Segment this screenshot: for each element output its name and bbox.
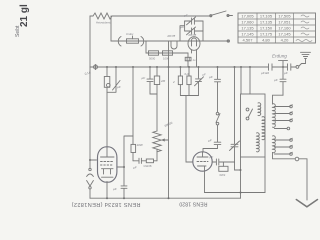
wire screen row y53 (146, 41, 188, 53)
svg-text:0,H: 0,H (185, 72, 189, 76)
tube V1 electrodes (101, 148, 115, 157)
wiper arrow (162, 139, 169, 141)
resistor box x157 (156, 67, 158, 76)
fuse on bus (94, 65, 98, 69)
capacitor in anode wire y160.8 (133, 158, 146, 163)
svg-text:17,005: 17,005 (241, 14, 254, 19)
wire bottom bus (90, 197, 241, 199)
svg-text:µF: µF (184, 14, 188, 18)
terminal circle bottom (295, 157, 299, 161)
svg-text:0W2: 0W2 (220, 173, 226, 177)
svg-text:17,505: 17,505 (278, 14, 291, 19)
svg-text:RC78: RC78 (189, 33, 197, 37)
primary coil lower section (262, 117, 265, 140)
resistor box snubber (219, 166, 228, 171)
wire rail y95.5 (180, 95, 198, 97)
table cell values (241, 14, 291, 43)
resistor heater zigzag top left (93, 13, 112, 19)
svg-text:4,80: 4,80 (262, 38, 271, 43)
terminal circle on bus right end (296, 66, 299, 69)
wire cathode lead V2 (204, 166, 206, 193)
wire heater row (111, 40, 203, 42)
svg-text:Urdox: Urdox (126, 32, 134, 36)
svg-text:17,051: 17,051 (278, 20, 291, 25)
taps upper (274, 105, 292, 121)
svg-text:µF: µF (133, 166, 137, 170)
svg-text:2: 2 (172, 80, 175, 84)
table column 4 handwriting (296, 15, 312, 42)
svg-text:µF: µF (274, 78, 278, 82)
wire grid lead to tube V2 (186, 96, 193, 163)
resistor box x189 below bus (188, 67, 190, 76)
svg-text:17,175: 17,175 (260, 32, 273, 37)
capacitor series C-b on bus (288, 64, 291, 70)
junction dots bottom bus (106, 169, 242, 199)
svg-text:µF: µF (208, 139, 212, 143)
capacitor x283 (280, 67, 286, 95)
resistor box R-b on y53 (163, 51, 173, 55)
wire ground stem to bus (299, 59, 306, 67)
wire cathode return y192.5 (205, 192, 266, 194)
wire jog to anode rail x124 (124, 136, 133, 185)
primary coil tail section (257, 133, 260, 152)
wire y41 stub to dot (203, 40, 228, 42)
tube V1 RENS1823d envelope (98, 147, 117, 182)
wire vertical x111 from rail to barretter (110, 16, 112, 41)
svg-text:µF: µF (203, 73, 206, 77)
tube heater A legs (171, 41, 177, 49)
earth arrow symbol (296, 200, 317, 207)
wire link x116 (107, 67, 116, 92)
mains plug symbol bottom left (89, 168, 91, 170)
taps lower (274, 138, 292, 154)
svg-text:Erdung: Erdung (272, 54, 287, 59)
potentiometer zigzag (153, 131, 161, 152)
wire left rail vertical (89, 16, 91, 168)
svg-text:µF: µF (284, 71, 288, 75)
secondary coil lower (273, 136, 276, 153)
wire x203 vertical (202, 21, 204, 41)
tube V2 electrodes (197, 152, 208, 157)
svg-text:GW28: GW28 (144, 164, 152, 168)
switch in transformer (246, 108, 249, 111)
wire transformer feeds (241, 67, 250, 94)
wire coil bottom (273, 153, 296, 159)
wire to earth arrow (299, 159, 307, 200)
antenna terminal bar under Erdung (279, 61, 288, 67)
svg-text:µF E0: µF E0 (261, 71, 269, 75)
resistor box x180 below bus (179, 67, 181, 76)
barretter resistor box (127, 39, 139, 43)
variable capacitor C2 with arrow (185, 27, 203, 35)
svg-text:4,507: 4,507 (242, 38, 253, 43)
switch S1 top (210, 15, 212, 17)
svg-text:4,20: 4,20 (281, 38, 290, 43)
wire x168 full drop (168, 41, 170, 198)
capacitor series C-a on bus (269, 64, 273, 70)
title text Seibt 21 gl (15, 4, 30, 37)
svg-text:17,060: 17,060 (241, 20, 254, 25)
wire main bus (90, 66, 296, 68)
wire grid side lead (90, 159, 97, 161)
svg-text:2M: 2M (160, 79, 166, 83)
switch contact chain x217.5 (217, 82, 219, 112)
svg-text:17,105: 17,105 (260, 14, 273, 19)
svg-text:17,145: 17,145 (278, 32, 291, 37)
svg-text:RENS 1820: RENS 1820 (179, 201, 207, 207)
wire transformer bottom (240, 157, 242, 198)
svg-text:17,150: 17,150 (260, 26, 273, 31)
hatched box above bus x188 (187, 53, 189, 57)
svg-text:µF: µF (142, 76, 146, 80)
tap middle (274, 128, 287, 130)
wire top rail (90, 15, 210, 17)
capacitor snubber right of tube V2 (212, 159, 234, 165)
capacitor x124 cathode bypass (118, 167, 128, 198)
svg-text:RC78: RC78 (168, 34, 176, 38)
svg-text:Seibt: Seibt (15, 25, 21, 37)
svg-text:17,135: 17,135 (241, 26, 254, 31)
wire box right edge down (264, 157, 266, 193)
resistor box R-a on y53 (149, 51, 159, 55)
variable capacitor C1 with arrow (185, 17, 203, 25)
svg-text:17,145: 17,145 (241, 32, 254, 37)
capacitor x150 (147, 67, 157, 94)
lamp component below bus x107 (106, 67, 108, 76)
wire grid lead tube1 (106, 88, 108, 148)
svg-text:17,135: 17,135 (260, 20, 273, 25)
svg-text:µF: µF (117, 85, 121, 89)
svg-text:17,160: 17,160 (278, 26, 291, 31)
tube V2 RENS1820 envelope (193, 152, 212, 171)
svg-text:5000: 5000 (149, 57, 156, 61)
capacitor coupling x217.5 under bus (215, 67, 221, 82)
wire joining C1 C2 (180, 21, 185, 41)
svg-text:RENS 1823d (REN1822): RENS 1823d (REN1822) (71, 201, 140, 207)
secondary coil upper (273, 104, 276, 128)
primary coil upper section (258, 103, 261, 116)
resistor chain x133 anode load (132, 67, 134, 144)
trimmer chain x234.5 (231, 67, 238, 162)
svg-text:µF: µF (209, 75, 213, 79)
wire cathode lead (106, 182, 108, 199)
svg-text:µF: µF (210, 155, 214, 159)
wire to transformer bottom (235, 162, 241, 170)
svg-text:µF: µF (113, 187, 117, 191)
svg-text:Heizwiderst.: Heizwiderst. (96, 21, 111, 25)
capacitor trimmer x198.5 (196, 67, 202, 96)
barretter glass arcs (118, 37, 143, 47)
transformer box (241, 94, 266, 157)
tube B small envelope (188, 37, 200, 51)
junction dots on bus (106, 66, 284, 68)
svg-text:21 gl: 21 gl (19, 4, 30, 27)
voltage table (238, 13, 316, 43)
earth ground symbol top right (301, 52, 311, 58)
resistor box in anode wire (146, 159, 153, 163)
wire coil top link (273, 95, 284, 104)
